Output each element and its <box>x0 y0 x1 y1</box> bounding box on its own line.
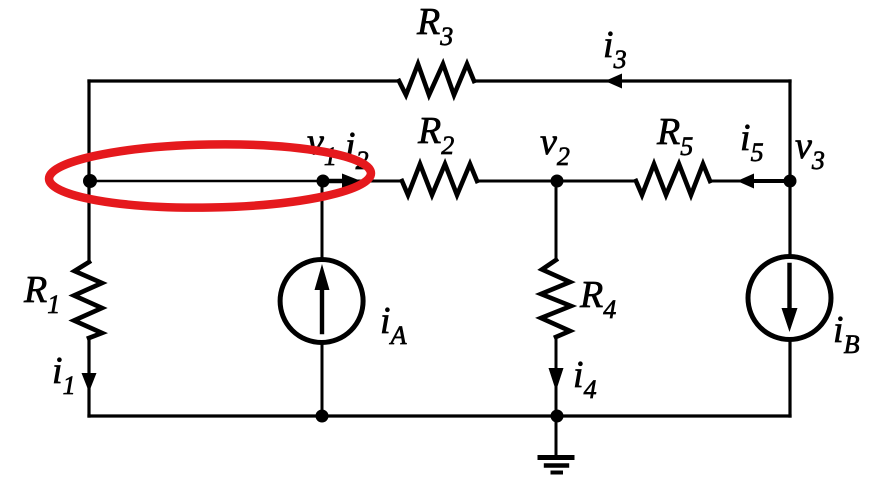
wire middle R2 to v2 to R5 <box>477 180 636 183</box>
wire bottom (y=415) <box>89 414 790 417</box>
arrow i5 (pointing left toward R5) <box>737 174 790 189</box>
wire middle v1 to R2 <box>322 180 402 183</box>
wire right (x=790) <box>788 81 791 416</box>
label v2 <box>540 123 570 170</box>
label R5 <box>657 113 693 160</box>
arrow i3 (current into node, pointing left on top wire) <box>605 74 622 89</box>
arrow i2 (from v1 pointing right) <box>323 174 361 189</box>
label i4 <box>573 356 597 403</box>
current source iB (circle with down arrow) <box>748 257 831 340</box>
node A (left junction dot) <box>83 174 97 188</box>
arrow i1 (down, below R1) <box>82 373 97 392</box>
bottom junction dot (iA branch) <box>316 410 329 423</box>
arrow i4 (down, below R4) <box>549 368 564 391</box>
label i1 <box>52 352 76 399</box>
resistor R4 (vertical, v2 branch) <box>541 260 571 337</box>
node v1 (junction dot) <box>317 175 330 188</box>
wire v2 branch (v2 down through R4 to bottom) <box>555 181 558 416</box>
resistor R2 <box>402 164 477 195</box>
label v1 <box>307 123 337 170</box>
label i5 <box>740 119 764 166</box>
label iB <box>833 311 859 358</box>
label i3 <box>603 26 627 73</box>
resistor R5 <box>636 164 710 195</box>
bottom junction dot (ground / v2 branch) <box>551 410 564 423</box>
wire middle left segment (node A to v1) <box>89 180 322 183</box>
label i2 <box>345 127 369 174</box>
label R3 <box>417 3 453 50</box>
resistor R3 <box>399 64 474 95</box>
wire v1 branch (v1 down to iA and iA to bottom wire) <box>321 181 324 416</box>
node v3 (junction dot) <box>784 175 797 188</box>
current source iA (circle with up arrow) <box>280 260 363 343</box>
wire left (x=89, from top wire down to bottom wire, gap at R1) <box>87 81 90 416</box>
label R4 <box>580 276 616 323</box>
node v2 (junction dot) <box>551 175 564 188</box>
label R2 <box>418 112 454 159</box>
label R1 <box>24 271 60 318</box>
ground (below bottom node under v2 branch) <box>540 416 572 473</box>
wire top (node A to v3, y=81) <box>89 79 790 82</box>
resistor R1 (vertical, left branch) <box>74 262 102 338</box>
wire middle R5 to v3 <box>710 180 790 183</box>
label iA <box>380 302 406 349</box>
label v3 <box>795 127 825 174</box>
